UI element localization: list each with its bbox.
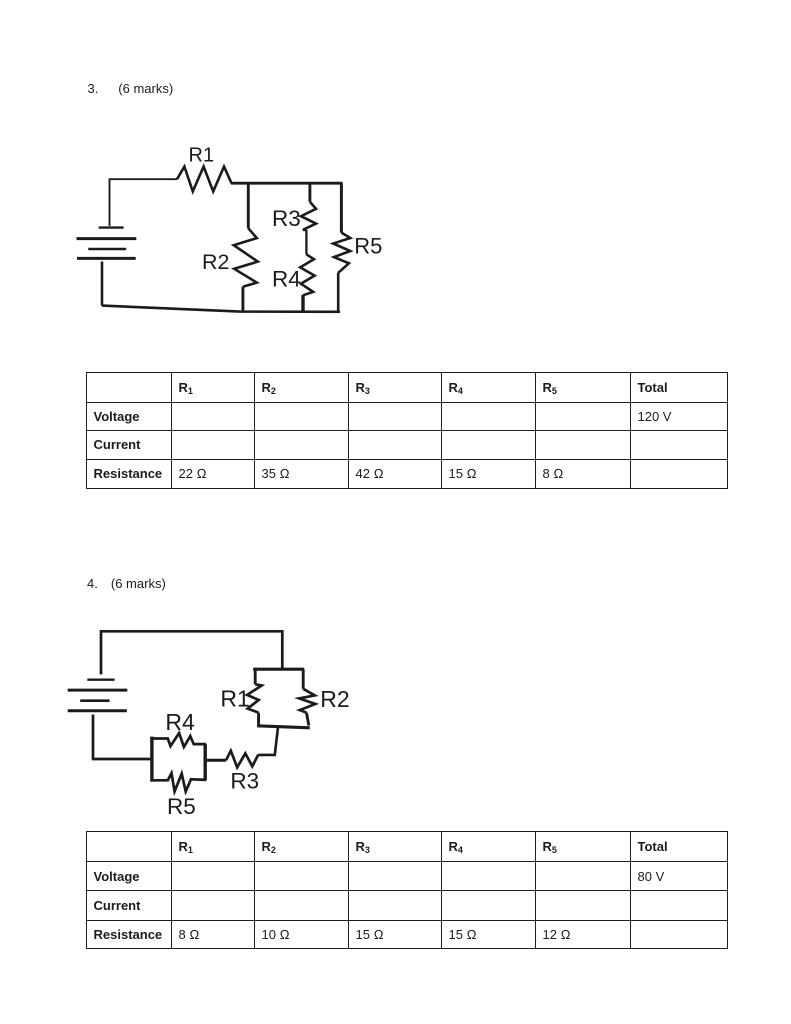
battery V1 xyxy=(77,228,137,259)
wire battery bottom to R4R5 block xyxy=(93,715,152,760)
node R4R5 right bar xyxy=(203,744,206,780)
resistor R2 xyxy=(234,228,258,286)
svg-text:R4: R4 xyxy=(272,267,301,292)
resistor R1 xyxy=(247,669,262,726)
svg-text:R1: R1 xyxy=(189,145,215,167)
node R4R5 left bar xyxy=(150,737,153,782)
svg-text:R2: R2 xyxy=(320,686,349,712)
wire R4R5 to R3 xyxy=(205,759,226,762)
table for item 4 xyxy=(86,831,728,949)
battery V2 xyxy=(68,680,128,711)
svg-text:R5: R5 xyxy=(354,234,382,259)
wire R2 branch top xyxy=(247,183,250,228)
wire R5 bottom xyxy=(337,273,340,312)
table for item 3 xyxy=(86,372,728,489)
resistor R3 xyxy=(226,751,258,768)
resistor R2 xyxy=(299,669,315,725)
resistor R4 xyxy=(153,733,206,747)
wire R2 bottom xyxy=(241,287,244,312)
resistor R5 xyxy=(333,233,350,273)
svg-text:R2: R2 xyxy=(202,250,229,274)
svg-text:R3: R3 xyxy=(272,206,301,231)
wire R4 bottom xyxy=(301,295,304,311)
svg-text:R3: R3 xyxy=(230,769,259,794)
svg-text:R1: R1 xyxy=(220,685,249,711)
node R1R2 bottom bar xyxy=(257,726,310,728)
wire bottom node xyxy=(102,306,340,312)
resistor R1 xyxy=(177,167,232,192)
resistor R5 xyxy=(153,773,206,791)
heading item 4 xyxy=(87,577,98,590)
wire battery top to R1 xyxy=(110,179,178,226)
wire battery bottom xyxy=(101,262,104,306)
resistor R4 xyxy=(300,254,314,295)
wire R5 branch top xyxy=(340,183,343,233)
svg-text:R5: R5 xyxy=(167,794,196,819)
wire R3 to R4 xyxy=(305,230,307,255)
svg-text:R4: R4 xyxy=(165,709,195,735)
wire R3 branch top xyxy=(308,183,311,202)
heading item 3 xyxy=(88,82,99,95)
wire R3 to R1R2 block xyxy=(258,728,278,755)
resistor R3 xyxy=(301,202,316,230)
node R1R2 top bar xyxy=(253,668,304,671)
wire top node xyxy=(231,182,343,185)
wire battery top to R1R2 block xyxy=(101,631,282,674)
